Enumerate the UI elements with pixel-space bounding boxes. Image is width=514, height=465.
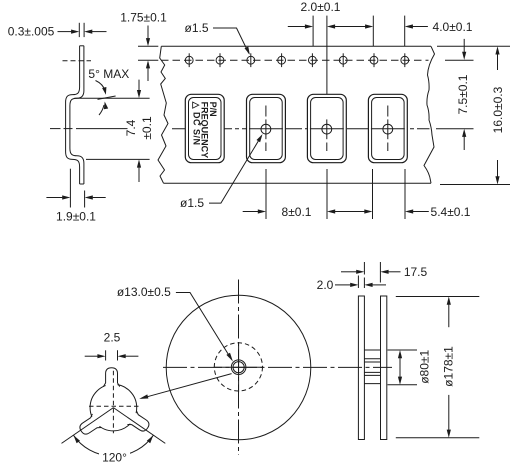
reel front view horizontal centerline bbox=[163, 366, 392, 368]
svg-text:1.9±0.1: 1.9±0.1 bbox=[56, 210, 96, 224]
hub detail circle bbox=[90, 384, 137, 431]
dimension 4.0±0.1 (sprocket hole pitch) bbox=[372, 16, 374, 46]
svg-text:2.0: 2.0 bbox=[317, 278, 334, 292]
hub detail lower-right slot bbox=[125, 409, 153, 435]
pocket P4 outline bbox=[368, 94, 407, 162]
sprocket holes &#248;1.5 with center ticks bbox=[185, 53, 193, 67]
svg-text:5.4±0.1: 5.4±0.1 bbox=[431, 205, 471, 219]
profile mid centerline dash bbox=[50, 128, 61, 130]
pocket P3 center hole &#248;1.5 with crosshair bbox=[310, 119, 344, 151]
svg-text:±0.1: ±0.1 bbox=[140, 116, 154, 140]
svg-text:ø1.5: ø1.5 bbox=[184, 21, 208, 35]
svg-text:ø80±1: ø80±1 bbox=[417, 350, 431, 384]
carrier tape bottom edge bbox=[164, 182, 432, 184]
dimension 120&#176; arc with arrows bbox=[74, 435, 154, 456]
pocket centerline vertical for pocket P3 / dimension ext line bbox=[326, 16, 328, 120]
dimension &#248;178±1 extension lines bbox=[396, 296, 480, 298]
svg-text:7.4: 7.4 bbox=[124, 119, 138, 136]
svg-text:ø178±1: ø178±1 bbox=[442, 346, 456, 387]
reel side view hub lines bbox=[364, 349, 380, 351]
hub detail 120&#176; reference lines bbox=[62, 408, 114, 444]
dimension 17.5 (inner width) bbox=[363, 262, 365, 275]
pocket P2 outline bbox=[247, 94, 286, 162]
svg-text:0.3±.005: 0.3±.005 bbox=[8, 25, 55, 39]
carrier tape top edge bbox=[161, 45, 431, 47]
pocket P2 center hole &#248;1.5 with crosshair bbox=[249, 106, 283, 152]
dimension 8±0.1 (pocket pitch) extension lines bbox=[265, 169, 267, 219]
svg-text:4.0±0.1: 4.0±0.1 bbox=[433, 20, 473, 34]
hub detail top slot (2.5 wide) bbox=[106, 368, 118, 390]
svg-text:2.5: 2.5 bbox=[104, 330, 121, 344]
pocket P3 outline bbox=[307, 94, 346, 162]
svg-text:120°: 120° bbox=[102, 450, 127, 464]
svg-text:△ DC S/N: △ DC S/N bbox=[192, 101, 202, 146]
dimension 7.4 ±0.1 (profile depth) bbox=[74, 97, 149, 99]
reel side view right flange bbox=[381, 296, 387, 440]
dimension 16.0±0.3 arrows and text bbox=[497, 55, 499, 71]
pocket P1 outline with label area bbox=[185, 94, 224, 162]
reel side view left flange bbox=[358, 296, 364, 440]
reel outer flange circle &#248;178 bbox=[166, 295, 311, 440]
sprocket hole centerline (dashed) bbox=[161, 59, 429, 61]
svg-text:1.75±0.1: 1.75±0.1 bbox=[120, 11, 167, 25]
svg-text:ø1.5: ø1.5 bbox=[180, 196, 204, 210]
carrier tape right torn edge bbox=[424, 46, 435, 183]
dimension &#248;80±1 arrows and rotated text bbox=[399, 358, 401, 378]
hub detail lower-left slot bbox=[77, 412, 105, 438]
svg-text:7.5±0.1: 7.5±0.1 bbox=[456, 74, 470, 114]
reel hub dashed circle &#248;80 region bbox=[214, 343, 262, 391]
dimension 5.4±0.1 extension lines bbox=[372, 169, 374, 219]
leader from center hub to hub-slot detail bbox=[142, 374, 232, 399]
dimension 8±0.1 arrows and text bbox=[243, 211, 258, 213]
dimension &#248;80±1 extension lines bbox=[388, 349, 418, 351]
pocket P1 marking text P/N FREQUENCY DC S/N (rotated) bbox=[192, 101, 218, 159]
pocket centerline (horizontal dash-dot) bbox=[172, 128, 430, 130]
dimension 16.0±0.3 (tape width) extension lines bbox=[437, 45, 510, 47]
pocket P4 center hole &#248;1.5 with crosshair bbox=[371, 106, 405, 152]
svg-text:16.0±0.3: 16.0±0.3 bbox=[491, 86, 505, 133]
dimension 7.5±0.1 (hole row to pocket centerline) bbox=[463, 39, 465, 53]
svg-text:2.0±0.1: 2.0±0.1 bbox=[301, 0, 341, 14]
dimension 1.75±0.1 (edge to hole centerline) bbox=[138, 45, 158, 47]
text 120&#176; bbox=[99, 450, 130, 463]
reel center hole &#248;13 circles bbox=[231, 360, 246, 375]
reel center crosshair bbox=[238, 343, 240, 393]
tape cross-section profile (side view of carrier tape) bbox=[66, 46, 80, 184]
svg-text:ø13.0±0.5: ø13.0±0.5 bbox=[117, 285, 171, 299]
dimension 1.9±0.1 (profile bottom offset) bbox=[69, 169, 71, 208]
dimension 5.4±0.1 arrows and text bbox=[334, 211, 366, 213]
carrier tape left torn edge bbox=[158, 46, 168, 183]
dimension &#248;178±1 arrows and rotated text bbox=[448, 304, 450, 327]
svg-text:8±0.1: 8±0.1 bbox=[282, 205, 312, 219]
profile sprocket-row dashed mark bbox=[63, 60, 92, 62]
hub detail dashed centerlines bbox=[112, 371, 114, 434]
svg-text:17.5: 17.5 bbox=[404, 265, 428, 279]
reel front view vertical centerline bbox=[238, 280, 240, 456]
svg-text:5° MAX: 5° MAX bbox=[88, 67, 129, 81]
